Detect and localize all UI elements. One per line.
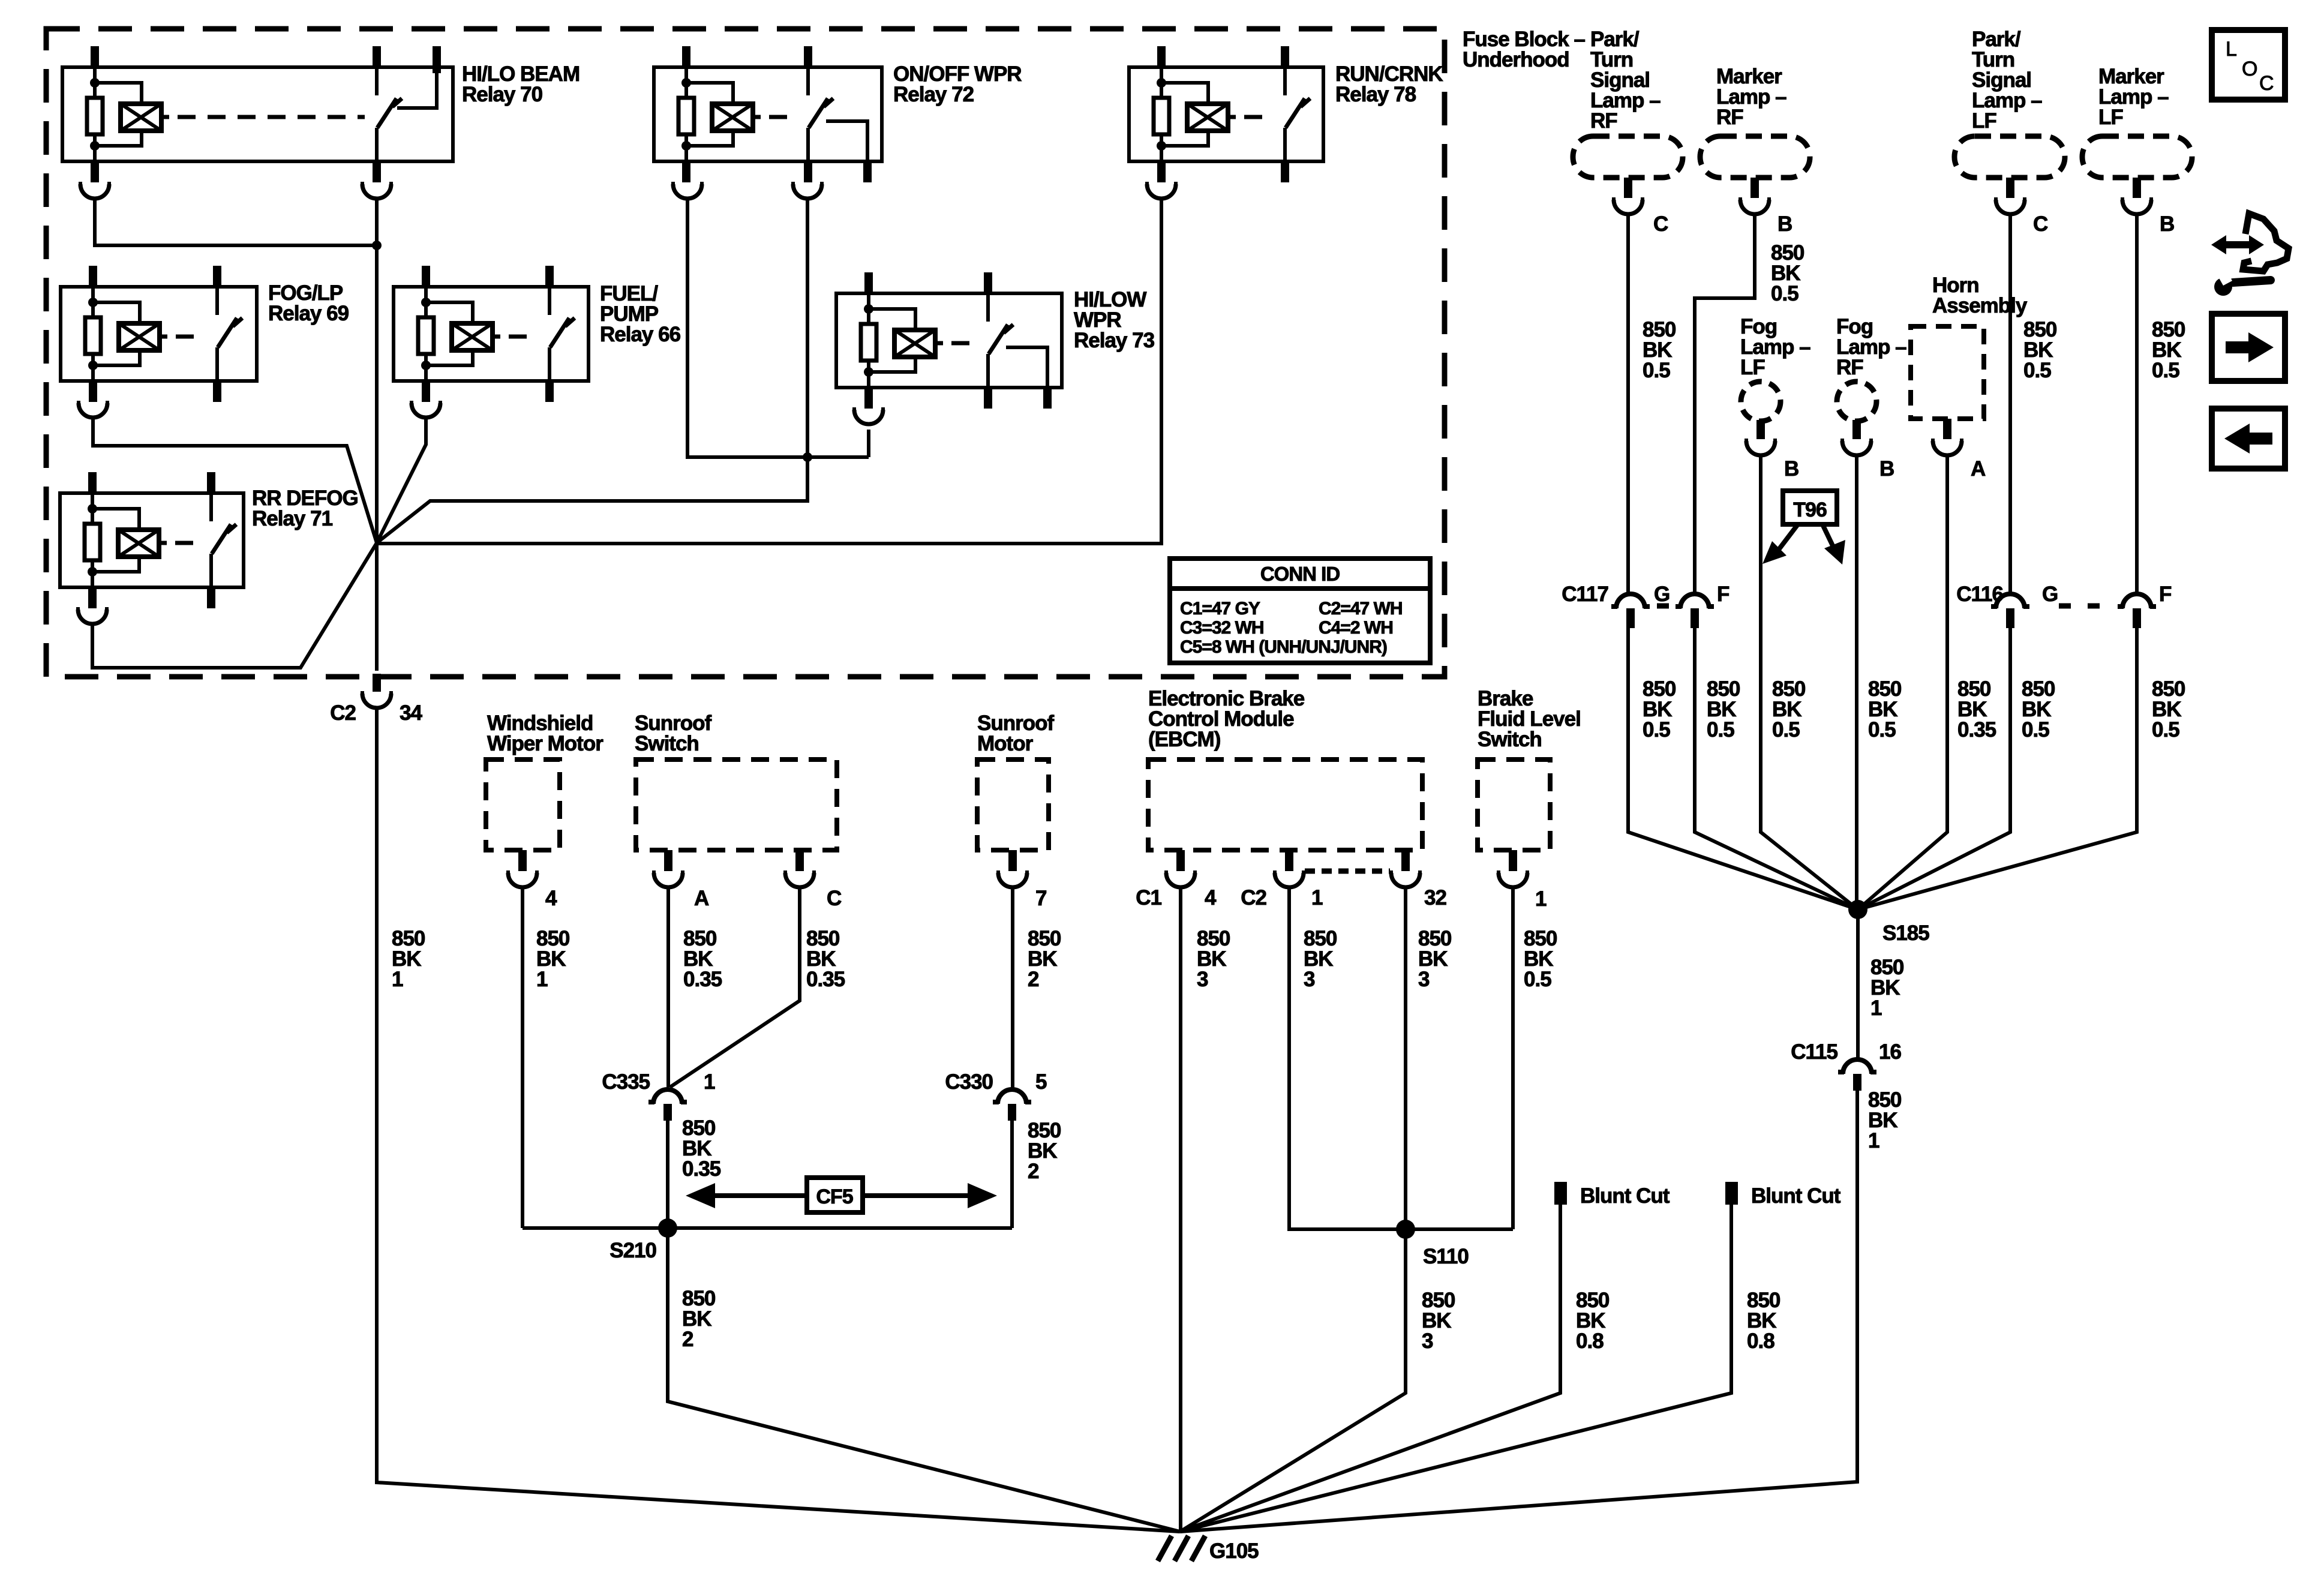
svg-text:C: C xyxy=(2259,72,2274,95)
svg-text:4: 4 xyxy=(545,887,557,910)
svg-text:1: 1 xyxy=(1868,1129,1879,1152)
marker lamp RF xyxy=(1700,136,1810,178)
fog lamp RF xyxy=(1837,382,1876,421)
svg-text:Switch: Switch xyxy=(635,732,699,755)
svg-text:Relay 72: Relay 72 xyxy=(893,83,974,106)
splice S185 xyxy=(1848,900,1867,919)
svg-text:A: A xyxy=(694,887,709,910)
svg-text:C: C xyxy=(2033,212,2048,236)
svg-text:C2: C2 xyxy=(330,701,356,725)
wire relay71 coil to fan point xyxy=(92,543,377,668)
svg-text:32: 32 xyxy=(1424,886,1446,909)
svg-text:C2: C2 xyxy=(1241,886,1266,909)
ground G105 xyxy=(1158,1536,1259,1563)
park/turn RF pin C xyxy=(1624,178,1632,198)
svg-text:Motor: Motor xyxy=(977,732,1034,755)
left arrow icon xyxy=(2212,409,2285,469)
svg-text:C2=47 WH: C2=47 WH xyxy=(1319,599,1403,619)
svg-text:0.8: 0.8 xyxy=(1576,1329,1604,1353)
park/turn LF pin C xyxy=(2006,178,2014,198)
svg-text:0.5: 0.5 xyxy=(2152,359,2179,382)
wire EBCM C1-4 to G105 850 BK 3 xyxy=(1179,885,1182,1532)
svg-text:0.35: 0.35 xyxy=(806,968,845,991)
connector C115 pin 16 xyxy=(1843,1059,1872,1074)
connector arc relay70 coil pin xyxy=(80,184,109,199)
svg-text:T96: T96 xyxy=(1793,499,1827,521)
relay 78 (RUN/CRNK) xyxy=(1129,46,1323,182)
relay 72 (ON/OFF WPR) xyxy=(654,46,882,182)
svg-text:Assembly: Assembly xyxy=(1932,294,2028,317)
wire relay66 coil to fan point xyxy=(377,418,426,543)
marker lamp LF xyxy=(2082,136,2192,178)
svg-text:Relay 71: Relay 71 xyxy=(252,507,333,530)
svg-text:C: C xyxy=(1653,212,1668,236)
wire wiper motor 850 BK 1 xyxy=(521,885,524,1228)
wire EBCM 32 850 BK 3 xyxy=(1404,885,1407,1229)
wire park/turn LF C 850 BK 0.5 xyxy=(1858,214,2010,909)
svg-text:0.5: 0.5 xyxy=(1707,718,1734,742)
svg-text:0.5: 0.5 xyxy=(1771,282,1798,305)
takeout T96 xyxy=(1762,491,1845,565)
wire park/turn RF C 850 BK 0.5 xyxy=(1628,214,1858,909)
svg-text:Relay 78: Relay 78 xyxy=(1335,83,1416,106)
EBCM pin C1 4 xyxy=(1176,850,1185,871)
marker RF pin B xyxy=(1750,178,1759,198)
relay 71 (RR DEFOG) xyxy=(60,472,244,608)
wire marker RF B 850 BK 0.5 xyxy=(1695,214,1858,909)
svg-text:B: B xyxy=(1777,212,1792,236)
wire horn A xyxy=(1858,455,1947,909)
svg-text:0.5: 0.5 xyxy=(2023,359,2051,382)
svg-text:0.35: 0.35 xyxy=(1957,718,1996,742)
svg-text:1: 1 xyxy=(1870,996,1882,1020)
svg-text:C3=32 WH: C3=32 WH xyxy=(1180,618,1264,638)
brake fluid level switch box xyxy=(1478,760,1550,850)
svg-text:7: 7 xyxy=(1035,887,1046,910)
svg-text:RF: RF xyxy=(1836,356,1863,379)
connector C116 pin G xyxy=(1996,594,2025,608)
wire sunroof motor 850 BK 2 xyxy=(1011,885,1014,1088)
splice S210 xyxy=(523,1226,1012,1230)
svg-text:S185: S185 xyxy=(1882,921,1929,945)
connector arc relay70 switch pin xyxy=(362,184,391,199)
svg-text:5: 5 xyxy=(1035,1070,1047,1094)
svg-text:16: 16 xyxy=(1879,1040,1901,1064)
svg-text:Blunt Cut: Blunt Cut xyxy=(1580,1184,1670,1208)
wire brake fluid switch 850 BK 0.5 xyxy=(1511,885,1515,1229)
svg-text:B: B xyxy=(1879,457,1894,481)
junction S (1346,762) xyxy=(803,452,812,462)
svg-text:C115: C115 xyxy=(1791,1040,1837,1064)
svg-text:2: 2 xyxy=(1028,968,1039,991)
svg-text:(EBCM): (EBCM) xyxy=(1148,728,1220,751)
svg-text:Relay 73: Relay 73 xyxy=(1074,329,1155,352)
svg-text:1: 1 xyxy=(704,1070,715,1094)
relay 73 (HI/LOW WPR) xyxy=(836,272,1062,409)
svg-text:C4=2 WH: C4=2 WH xyxy=(1319,618,1393,638)
vehicle front icon with arrow and wrench xyxy=(2211,214,2289,296)
brake fluid switch pin 1 xyxy=(1509,850,1517,871)
wire sunroof switch A 850 BK 0.35 xyxy=(666,885,670,1087)
svg-text:C1=47 GY: C1=47 GY xyxy=(1180,599,1260,619)
svg-text:1: 1 xyxy=(536,968,548,991)
horn assembly xyxy=(1911,326,1984,419)
EBCM box xyxy=(1148,760,1422,850)
svg-text:C117: C117 xyxy=(1562,583,1608,606)
svg-text:Relay 66: Relay 66 xyxy=(600,323,681,346)
LOC legend box xyxy=(2212,30,2285,100)
wire S185 to C115 850 BK 1 xyxy=(1856,909,1860,1058)
relay 66 (FUEL/PUMP) xyxy=(394,266,588,402)
CONN ID table xyxy=(1170,559,1430,663)
svg-text:0.5: 0.5 xyxy=(1643,359,1670,382)
EBCM pin 32 xyxy=(1401,850,1410,871)
svg-text:0.5: 0.5 xyxy=(2152,718,2179,742)
wire EBCM C2-1 850 BK 3 xyxy=(1289,885,1406,1229)
connector C330 pin 5 xyxy=(998,1089,1026,1104)
svg-text:F: F xyxy=(2159,583,2172,606)
connector arc relay72 coil pin xyxy=(673,184,702,199)
svg-text:F: F xyxy=(1717,583,1730,606)
wire S110 to G105 850 BK 3 xyxy=(1180,1229,1406,1532)
svg-text:2: 2 xyxy=(1028,1160,1039,1183)
svg-text:C116: C116 xyxy=(1956,583,2003,606)
svg-text:1: 1 xyxy=(1311,886,1323,909)
svg-text:4: 4 xyxy=(1205,886,1217,909)
svg-text:3: 3 xyxy=(1422,1329,1433,1353)
svg-text:Relay 70: Relay 70 xyxy=(462,83,543,106)
sunroof motor box xyxy=(977,760,1049,850)
right arrow icon xyxy=(2212,314,2285,381)
connector arc relay66 coil pin xyxy=(412,403,440,418)
park/turn signal lamp LF xyxy=(1954,136,2065,178)
svg-text:B: B xyxy=(1784,457,1798,481)
CF5 takeout xyxy=(686,1178,997,1212)
connector arc relay69 coil pin xyxy=(79,403,107,418)
horn pin A xyxy=(1943,419,1951,439)
svg-text:C330: C330 xyxy=(945,1070,993,1094)
wire marker LF B 850 BK 0.5 xyxy=(1858,214,2137,909)
svg-text:3: 3 xyxy=(1304,968,1315,991)
svg-text:0.5: 0.5 xyxy=(1868,718,1896,742)
svg-text:1: 1 xyxy=(392,968,403,991)
svg-text:Blunt Cut: Blunt Cut xyxy=(1751,1184,1841,1208)
wire relay70 coil to bus xyxy=(95,199,377,245)
connector arc relay71 coil pin xyxy=(78,610,107,624)
svg-text:G: G xyxy=(2042,583,2058,606)
svg-text:LF: LF xyxy=(1972,109,1996,133)
sunroof switch box xyxy=(636,760,837,850)
svg-text:S110: S110 xyxy=(1423,1245,1469,1268)
svg-text:C5=8 WH (UNH/UNJ/UNR): C5=8 WH (UNH/UNJ/UNR) xyxy=(1180,637,1387,657)
windshield wiper motor box xyxy=(486,760,560,850)
sunroof motor pin 7 xyxy=(1008,850,1017,871)
fog lamp LF xyxy=(1741,382,1780,421)
svg-text:3: 3 xyxy=(1418,968,1430,991)
connector C116 pin F (dashed link) xyxy=(2088,604,2100,609)
svg-text:CONN ID: CONN ID xyxy=(1260,563,1340,585)
wire fog RF B xyxy=(1855,455,1858,909)
svg-text:0.5: 0.5 xyxy=(1643,718,1670,742)
svg-text:1: 1 xyxy=(1535,887,1547,911)
connector C2 pin 34 xyxy=(373,674,381,692)
junction relay70 xyxy=(372,241,382,250)
wire C115 to G105 850 BK 1 xyxy=(1180,1091,1857,1532)
svg-text:34: 34 xyxy=(400,701,422,725)
svg-text:C335: C335 xyxy=(602,1070,650,1094)
svg-text:LF: LF xyxy=(2098,106,2123,129)
svg-text:0.5: 0.5 xyxy=(1524,968,1551,991)
wire blunt cut 2 850 BK 0.8 xyxy=(1180,1205,1731,1532)
marker LF pin B xyxy=(2133,178,2141,198)
svg-text:RF: RF xyxy=(1716,106,1743,129)
blunt cut 2 xyxy=(1725,1182,1738,1205)
wire fog LF B xyxy=(1761,455,1858,909)
connector C335 pin 1 xyxy=(653,1089,682,1104)
connector C117 pin F xyxy=(1680,594,1709,608)
svg-text:0.8: 0.8 xyxy=(1747,1329,1774,1353)
sunroof switch pin C xyxy=(795,850,804,871)
EBCM pin C2 1 xyxy=(1285,850,1293,871)
svg-text:S210: S210 xyxy=(609,1239,656,1262)
wiper motor pin 4 xyxy=(518,850,527,871)
park/turn signal lamp RF xyxy=(1573,136,1683,178)
EBCM internal dotted link xyxy=(1305,869,1390,874)
svg-text:C: C xyxy=(827,887,842,910)
wire relay78 coil to fan point xyxy=(377,199,1161,544)
fuse block underhood dashed boundary xyxy=(46,29,1445,677)
svg-text:3: 3 xyxy=(1197,968,1208,991)
fog RF pin B xyxy=(1852,420,1861,439)
relay 70 (HI/LO BEAM) xyxy=(62,46,453,182)
wire relay69 coil to fan point xyxy=(93,418,377,543)
svg-text:2: 2 xyxy=(682,1328,693,1351)
blunt cut 1 xyxy=(1554,1182,1567,1205)
wire relay70 switch down to C2 xyxy=(375,199,379,671)
svg-text:Wiper Motor: Wiper Motor xyxy=(487,732,603,755)
svg-text:0.5: 0.5 xyxy=(1772,718,1800,742)
svg-text:G105: G105 xyxy=(1209,1539,1259,1563)
relay 69 (FOG/LP) xyxy=(61,266,257,402)
svg-text:Switch: Switch xyxy=(1478,728,1542,751)
wire relay72 coil to relay73 coil xyxy=(687,199,869,457)
svg-text:RF: RF xyxy=(1590,109,1617,133)
svg-text:A: A xyxy=(1971,457,1986,481)
connector arc relay73 coil pin xyxy=(854,410,883,424)
svg-text:0.35: 0.35 xyxy=(683,968,722,991)
wire 850 BK 1 from C2 to G105 xyxy=(377,708,1180,1532)
svg-text:CF5: CF5 xyxy=(816,1185,852,1208)
wire blunt cut 1 850 BK 0.8 xyxy=(1180,1205,1560,1532)
connector arc relay78 coil pin xyxy=(1147,184,1176,199)
svg-text:B: B xyxy=(2160,212,2174,236)
svg-text:0.35: 0.35 xyxy=(682,1157,721,1181)
wire C335 to S210 850 BK 0.35 xyxy=(666,1121,669,1228)
wire relay72 switch to fan point xyxy=(377,199,807,543)
svg-text:G: G xyxy=(1654,583,1670,606)
svg-text:O: O xyxy=(2242,58,2257,80)
connector arc relay72 switch pin xyxy=(793,184,822,199)
sunroof switch pin A xyxy=(664,850,672,871)
svg-text:0.5: 0.5 xyxy=(2022,718,2049,742)
splice S110 xyxy=(1289,1227,1513,1231)
svg-text:L: L xyxy=(2226,38,2236,61)
svg-text:LF: LF xyxy=(1740,356,1765,379)
svg-text:Relay 69: Relay 69 xyxy=(268,302,349,325)
svg-text:Underhood: Underhood xyxy=(1463,48,1569,71)
wire S210 to G105 850 BK 2 xyxy=(668,1228,1180,1532)
svg-text:C1: C1 xyxy=(1136,886,1161,909)
wire sunroof switch C 850 BK 0.35 xyxy=(670,885,800,1087)
fog LF pin B xyxy=(1756,420,1765,439)
connector C117 pin G xyxy=(1616,594,1645,608)
wire C330 to S210 850 BK 2 xyxy=(1010,1121,1014,1228)
